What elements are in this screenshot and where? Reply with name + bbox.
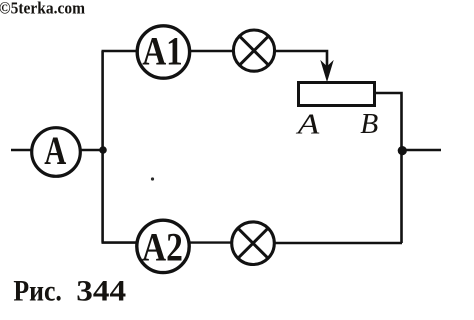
rheostat R (slide-wire) body: [299, 83, 375, 106]
ammeter A2: [137, 220, 189, 272]
wire L1 to rheostat slider: [275, 51, 328, 68]
speck (scan artifact dot): [151, 177, 154, 180]
wire rheostat B terminal to right rail: [376, 93, 402, 243]
wire left lead: [11, 149, 31, 151]
svg-text:B: B: [360, 108, 378, 140]
caption Рис. 344: [13, 275, 126, 307]
svg-text:©5terka.com: ©5terka.com: [0, 0, 85, 18]
rheostat slider arrow: [321, 62, 332, 81]
wire right lead: [402, 149, 441, 151]
svg-text:A2: A2: [142, 224, 183, 269]
svg-text:Рис.: Рис.: [13, 275, 62, 307]
svg-text:A1: A1: [142, 29, 183, 74]
ammeter A: [32, 128, 81, 177]
ammeter A1: [137, 26, 189, 78]
wire A1 to lamp L1: [190, 50, 233, 52]
lamp L1: [233, 30, 274, 71]
svg-text:A: A: [295, 109, 319, 141]
wire node to A2: [102, 241, 138, 244]
node right junction: [398, 146, 407, 155]
wire node to A1: [102, 50, 138, 53]
node left junction: [99, 146, 107, 154]
svg-text:344: 344: [76, 275, 126, 307]
wire A2 to lamp L2: [190, 241, 233, 243]
wire left rail vertical: [101, 51, 104, 243]
wire A to left node: [80, 149, 103, 151]
wire L2 to right rail: [275, 242, 403, 245]
lamp L2: [232, 222, 275, 265]
svg-text:A: A: [44, 128, 66, 173]
